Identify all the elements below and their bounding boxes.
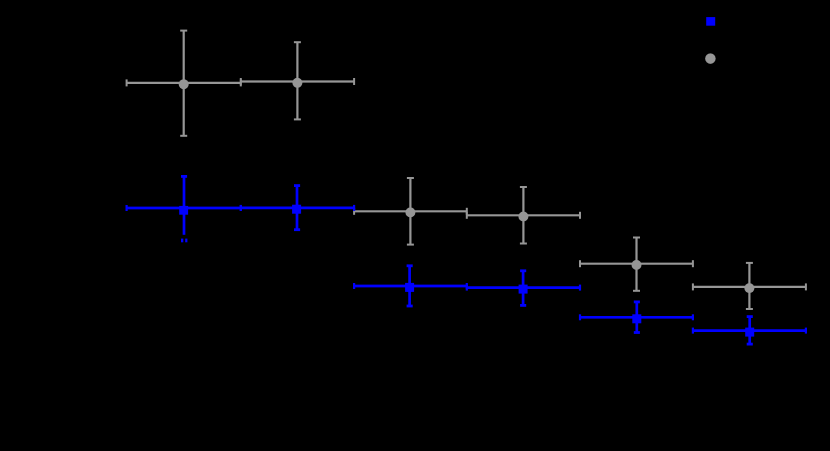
legend gray circle marker	[705, 53, 716, 64]
gray data point G1 error bars	[127, 31, 241, 136]
gray data point G4 error bars	[467, 187, 580, 244]
blue data point B1 marker	[179, 206, 188, 215]
gray data point G2 marker	[292, 78, 302, 88]
blue data point B2 marker	[292, 205, 301, 214]
gray data point G6 error bars	[693, 263, 806, 309]
legend blue square marker	[706, 17, 715, 26]
blue data point B3 marker	[405, 283, 414, 292]
blue data point B3 error bars	[354, 265, 467, 306]
blue data point B5 marker	[632, 314, 641, 323]
gray data point G6 marker	[744, 283, 754, 293]
blue data point B1 split lower cap	[181, 239, 187, 243]
gray data point G3 marker	[405, 207, 415, 217]
gray data point G5 marker	[632, 260, 642, 270]
gray data point G5 error bars	[580, 238, 693, 291]
blue data point B4 marker	[519, 285, 528, 294]
blue data point B4 error bars	[467, 270, 580, 305]
blue data point B2 error bars	[241, 185, 354, 230]
gray data point G3 error bars	[354, 178, 467, 245]
gray data point G1 marker	[179, 79, 189, 89]
blue data point B1 error bars	[127, 176, 241, 235]
gray data point G4 marker	[518, 212, 528, 222]
blue data point B6 marker	[745, 328, 754, 337]
gray data point G2 error bars	[241, 42, 354, 119]
blue data point B5 error bars	[580, 302, 693, 333]
blue data point B6 error bars	[693, 316, 806, 344]
